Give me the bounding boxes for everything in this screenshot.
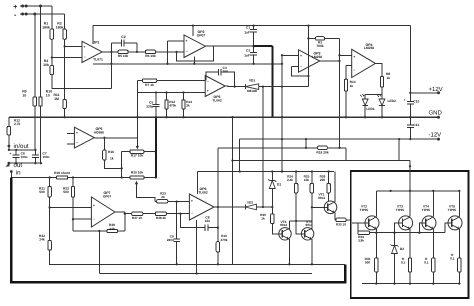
svg-text:–: – (207, 79, 209, 83)
wire VT1 base (312, 206, 324, 208)
resistor R16 (103, 138, 105, 150)
svg-text:R7 1k: R7 1k (145, 83, 154, 87)
svg-text:500: 500 (63, 190, 69, 194)
wire op4 output to R8 (375, 63, 382, 76)
resistor R32 (48, 240, 51, 250)
wire R22 to op7 minus (72, 197, 74, 231)
svg-text:LED2: LED2 (388, 99, 397, 103)
wire top bus right drop (409, 26, 411, 93)
svg-text:TIP35: TIP35 (360, 208, 369, 212)
svg-text:220p: 220p (146, 105, 153, 109)
wire VT4 base feed (419, 223, 422, 233)
svg-text:700k: 700k (316, 44, 323, 48)
wire R17 right (144, 151, 156, 153)
wire R18 corner to rail (345, 148, 347, 161)
wire VT1 collector (334, 172, 336, 203)
node +12V (410, 92, 438, 94)
svg-text:10: 10 (46, 93, 50, 97)
wire op4 plus column (339, 38, 341, 147)
svg-text:D1: D1 (277, 182, 281, 186)
wire R6 to OP2 (156, 51, 184, 53)
capacitor C1 (253, 26, 255, 30)
zener D1 (271, 172, 273, 181)
svg-text:R33 10: R33 10 (336, 222, 346, 226)
svg-text:100n: 100n (43, 155, 50, 159)
resistor R21 (49, 178, 51, 187)
op-amp OP5 AD586 (67, 133, 74, 135)
wire +col down to out (40, 6, 42, 97)
svg-text:–: – (93, 217, 95, 221)
wire R1 column (51, 6, 53, 29)
resistor R14 (344, 79, 347, 91)
wire op3 output (320, 60, 340, 62)
wire long rail y160 (233, 160, 411, 162)
svg-text:+: + (13, 4, 17, 11)
resistor R2 (63, 29, 66, 39)
svg-text:180k: 180k (56, 25, 64, 29)
capacitor C6 (15, 150, 17, 155)
svg-text:C10: C10 (413, 100, 419, 104)
wire R19 right (68, 177, 130, 179)
svg-text:1k: 1k (350, 84, 354, 88)
svg-text:470k: 470k (221, 238, 228, 242)
wire VT4 emitter col (432, 229, 434, 258)
node -12V (240, 138, 439, 140)
wire op2 vplus (192, 26, 194, 36)
wire op1 fb column (110, 43, 112, 89)
svg-text:GND: GND (429, 109, 443, 116)
resistor R25 (311, 172, 313, 184)
wire op2 feedback box (177, 46, 214, 61)
resistor R12 (8, 117, 10, 126)
svg-text:10k: 10k (304, 178, 309, 182)
wire op2 vminus (193, 57, 195, 64)
svg-text:LM258: LM258 (312, 55, 322, 59)
wire base rail y171.5 (198, 171, 335, 173)
svg-text:0.1: 0.1 (424, 261, 429, 265)
resistor R18 (218, 147, 318, 149)
wire in line (10, 172, 12, 178)
svg-text:R19 shunt: R19 shunt (54, 171, 71, 175)
svg-text:R17 10k: R17 10k (131, 154, 143, 158)
capacitor C11 (409, 117, 411, 125)
wire op3 plus input (282, 54, 299, 56)
svg-text:200: 200 (320, 178, 325, 182)
svg-text:TL062: TL062 (198, 191, 208, 195)
svg-text:3.9k: 3.9k (358, 239, 364, 243)
wire thick divider (155, 117, 157, 177)
svg-text:+12V: +12V (429, 86, 443, 93)
capacitor C3 (250, 52, 257, 54)
svg-text:R16: R16 (108, 150, 114, 154)
resistor R36 (408, 258, 411, 272)
op-amp OP6 (189, 194, 214, 220)
wire op7 output (115, 211, 125, 213)
wire VT5 base feed (296, 221, 301, 234)
wire VT2 collector (375, 191, 377, 217)
wire op1 output (102, 51, 118, 53)
capacitor C8 (181, 214, 206, 228)
resistor R9 (33, 97, 36, 106)
zener D2 (394, 233, 396, 246)
capacitor C10 (409, 93, 411, 102)
wire VT5 collector (458, 191, 460, 217)
svg-text:24k: 24k (39, 238, 45, 242)
wire VT4 collector (432, 191, 434, 217)
svg-text:OP1: OP1 (92, 41, 99, 45)
svg-text:C1: C1 (246, 26, 250, 30)
svg-text:10n: 10n (205, 219, 210, 223)
svg-text:9014: 9014 (280, 223, 287, 227)
wire op2 output (205, 45, 253, 47)
wire R28 to op6 minus (166, 213, 189, 215)
svg-text:VD1: VD1 (249, 79, 256, 83)
op-amp OP3 (299, 50, 320, 72)
wire mid vertical col (281, 55, 283, 171)
wire box bottom rail (362, 283, 461, 285)
op-amp OP2 (184, 35, 205, 58)
wire VT3 collector feed (409, 161, 411, 217)
resistor R12b (166, 93, 168, 100)
resistor R37 (432, 258, 435, 272)
svg-text:–: – (300, 64, 302, 68)
op-amp OP7 (91, 197, 115, 227)
wire op6 out line (218, 206, 245, 208)
svg-text:24k: 24k (109, 227, 115, 231)
wire op1 minus input (52, 57, 82, 59)
svg-text:+: + (191, 199, 193, 203)
wire VT3 base feed (395, 223, 399, 233)
wire LED1 to gnd (364, 105, 366, 117)
svg-text:LM258: LM258 (364, 46, 374, 50)
capacitor C4 (206, 72, 218, 80)
svg-text:1k: 1k (110, 157, 114, 161)
svg-text:out: out (14, 162, 23, 169)
svg-text:500: 500 (39, 190, 45, 194)
svg-text:R6 10k: R6 10k (145, 54, 156, 58)
svg-text:LED1: LED1 (366, 107, 375, 111)
wire R16 down (104, 160, 121, 168)
resistor R7 (137, 80, 142, 82)
capacitor C7 (34, 150, 36, 155)
wire VT6 leads (288, 221, 290, 229)
wire VT2 base (352, 222, 365, 224)
wire VD1 right (259, 86, 309, 88)
wire op6 vminus (196, 220, 198, 274)
led LED2 (379, 104, 385, 106)
svg-text:TIP35: TIP35 (396, 208, 405, 212)
wire collector line y221 (289, 220, 312, 222)
resistor R24 (295, 172, 297, 184)
wire R4 to feedback (52, 75, 112, 89)
svg-text:+: + (84, 45, 86, 49)
op-amp OP5 TL062 (205, 76, 225, 97)
wire left col down (98, 231, 100, 274)
svg-text:+: + (207, 89, 209, 93)
wire op5 output (94, 137, 137, 139)
wire op7 plus (50, 207, 92, 209)
resistor R10b (217, 228, 219, 242)
wire c8 to output (217, 148, 219, 228)
svg-text:R18 20k: R18 20k (316, 151, 328, 155)
wire inout node (9, 149, 36, 151)
svg-text:TL071: TL071 (93, 58, 103, 62)
wire VT2 emitter to R35 (375, 229, 377, 258)
wire gnd riser mid (232, 117, 234, 264)
svg-text:–: – (191, 211, 193, 215)
wire mid input line (137, 92, 205, 94)
svg-text:R20 10k: R20 10k (131, 171, 143, 175)
wire VT1 emitter to R33 (334, 213, 336, 220)
svg-text:2k: 2k (161, 195, 165, 199)
svg-text:+: + (353, 55, 355, 59)
wire R20 wiper (135, 181, 138, 185)
resistor R38 (458, 258, 461, 272)
svg-text:R28 2k: R28 2k (156, 216, 166, 220)
resistor R30 (271, 207, 273, 214)
svg-text:–: – (84, 55, 86, 59)
wire -12 drop (398, 139, 400, 160)
svg-text:100: 100 (223, 70, 229, 74)
resistor R11 (63, 99, 66, 108)
svg-text:D2: D2 (400, 247, 404, 251)
wire analog rail (93, 63, 282, 65)
resistor R8 (380, 77, 383, 87)
resistor R34 (357, 223, 359, 233)
svg-text:220n: 220n (167, 238, 174, 242)
resistor R5 (118, 50, 128, 53)
wire VD1 zener drop (262, 87, 264, 207)
svg-text:–: – (186, 49, 188, 53)
svg-text:500: 500 (365, 261, 370, 265)
svg-text:470k: 470k (169, 103, 176, 107)
svg-text:VD2: VD2 (247, 200, 253, 204)
svg-text:R5 10k: R5 10k (118, 54, 129, 58)
svg-text:10: 10 (22, 93, 26, 97)
node in terminal (10, 170, 13, 173)
resistor R26 (328, 172, 330, 184)
svg-text:in: in (16, 169, 21, 176)
resistor R19 shunt (56, 176, 67, 179)
resistor R29 (73, 230, 107, 232)
wire R3 right (325, 37, 340, 39)
svg-text:-12V: -12V (429, 132, 442, 139)
svg-text:2k: 2k (186, 103, 190, 107)
svg-text:AD586: AD586 (94, 130, 104, 134)
svg-text:–: – (353, 68, 355, 72)
svg-text:2.4k: 2.4k (287, 178, 293, 182)
wire R32 to bottom rail (50, 250, 346, 264)
wire R30 to VT6 base (272, 224, 279, 234)
wire -col down to in/out (34, 14, 36, 97)
svg-text:+: + (300, 54, 302, 58)
svg-text:+: + (404, 98, 406, 102)
wire op3 vplus column (307, 26, 309, 87)
svg-text:1k: 1k (261, 216, 265, 220)
svg-text:R27 10: R27 10 (132, 216, 142, 220)
wire op6 plus (168, 201, 190, 203)
diode VD1 (244, 84, 246, 89)
capacitor C5 (155, 93, 157, 105)
wire bold mid node (254, 45, 273, 47)
resistor R27 (132, 212, 143, 215)
wire op1 vplus (92, 26, 94, 44)
wire lower rail2 (99, 273, 312, 275)
svg-text:+: + (76, 131, 78, 135)
resistor R20 (130, 176, 144, 179)
svg-text:100u: 100u (21, 155, 28, 159)
wire op3 feedback box (291, 65, 298, 67)
resistor R23 (155, 200, 157, 202)
svg-text:1M: 1M (54, 97, 59, 101)
node out terminal (9, 162, 41, 164)
resistor R33 (336, 218, 346, 221)
wire R5-R6 (128, 51, 145, 53)
resistor R6 (145, 50, 155, 53)
svg-text:C11: C11 (413, 123, 419, 127)
wire collector rail (376, 190, 459, 192)
svg-text:180k: 180k (42, 25, 50, 29)
wire op6 output (214, 206, 218, 208)
wire op2 plus loop (168, 40, 185, 42)
wire VT5s leads (311, 221, 313, 229)
svg-text:0.1: 0.1 (450, 257, 455, 261)
svg-text:10k: 10k (43, 63, 49, 67)
svg-text:+: + (93, 203, 95, 207)
svg-text:+: + (186, 39, 188, 43)
wire top bus (93, 25, 410, 27)
svg-text:0.1: 0.1 (401, 261, 406, 265)
led LED1 (362, 104, 368, 106)
resistor R3 (308, 37, 315, 39)
wire op4 minus to R14 (346, 64, 352, 66)
svg-text:in/out: in/out (14, 143, 29, 150)
capacitor C2 (111, 42, 121, 44)
resistor R22 (72, 178, 74, 187)
resistor R17 potentiometer (122, 151, 130, 153)
wire R21 down (49, 197, 51, 240)
resistor R10 (39, 97, 42, 106)
wire VT5 base feed (445, 223, 448, 233)
wire VT5 emitter col (458, 229, 460, 258)
op-amp OP1 (82, 41, 102, 62)
svg-text:1k: 1k (387, 76, 391, 80)
wire R14 to gnd (345, 91, 347, 117)
svg-text:OP07: OP07 (197, 33, 206, 37)
node in/out terminal (7, 145, 10, 148)
wire R17R20 left vert (121, 152, 123, 178)
resistor R1 (50, 29, 53, 39)
wire R2 column (64, 14, 66, 29)
svg-text:TL062: TL062 (212, 99, 222, 103)
svg-text:TIP35: TIP35 (422, 208, 431, 212)
resistor R13 (183, 93, 185, 100)
svg-text:2.7k: 2.7k (14, 122, 21, 126)
resistor R4 (50, 66, 53, 75)
wire R27-R28 (143, 213, 156, 215)
svg-text:TIP35: TIP35 (448, 208, 457, 212)
svg-text:+: + (10, 152, 12, 156)
svg-text:1uF: 1uF (244, 30, 250, 34)
svg-text:C3: C3 (246, 49, 250, 53)
op-amp OP4 (352, 49, 376, 77)
resistor R28 (155, 212, 166, 215)
wire op6 vplus (197, 172, 199, 195)
diode VD2 (244, 204, 246, 209)
wire base bus (370, 232, 445, 234)
wire VT3 emitter col (409, 229, 411, 258)
capacitor C9 (176, 202, 178, 239)
power box frame (351, 171, 469, 298)
wire R8 to LEDs (381, 87, 383, 99)
wire R17 wiper (136, 146, 139, 150)
resistor R35 (375, 258, 378, 272)
svg-text:D814B: D814B (247, 89, 258, 93)
svg-text:1uF: 1uF (244, 53, 250, 57)
svg-text:OP07: OP07 (103, 195, 112, 199)
wire op3 to op4 plus (340, 54, 352, 56)
svg-text:C2: C2 (121, 35, 125, 39)
wire op1 plus input (65, 45, 82, 47)
svg-text:–: – (76, 141, 78, 145)
bold ground loop (11, 178, 345, 283)
svg-text:9014: 9014 (318, 196, 325, 200)
wire R11 to gnd bus (64, 109, 66, 118)
wire op5 output (225, 85, 245, 88)
wire gnd bus (9, 116, 439, 118)
wire R20 right (144, 177, 156, 179)
wire LED2 to gnd (381, 105, 383, 117)
